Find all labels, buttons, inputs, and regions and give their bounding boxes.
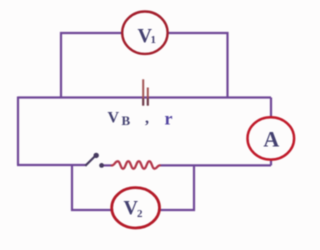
wire: V2 loop (bottom) bbox=[72, 165, 194, 210]
voltmeter V1 circle bbox=[122, 12, 167, 54]
battery VB short plate bbox=[147, 88, 149, 106]
battery plates lower dark segments bbox=[143, 98, 148, 105]
switch contact dot bbox=[99, 163, 104, 168]
svg-text:1: 1 bbox=[151, 34, 157, 46]
wire: V1 loop (top) bbox=[61, 33, 228, 98]
wire: switch to resistor segment bbox=[102, 164, 112, 166]
wire: resistor to right segment bbox=[160, 164, 271, 166]
ammeter A circle bbox=[247, 117, 294, 159]
svg-text:B: B bbox=[122, 113, 131, 128]
wire: right vertical through ammeter bbox=[270, 98, 272, 166]
voltmeter V2 circle bbox=[112, 188, 160, 228]
svg-text:r: r bbox=[165, 108, 173, 128]
svg-text:A: A bbox=[263, 126, 279, 151]
battery VB long plate bbox=[142, 79, 144, 105]
wire: middle horizontal with battery bbox=[18, 96, 271, 98]
resistor R zigzag bbox=[112, 161, 160, 168]
switch lever bbox=[85, 156, 95, 165]
switch pivot dot bbox=[94, 153, 99, 158]
svg-text:2: 2 bbox=[137, 208, 143, 220]
wire: bottom left segment bbox=[17, 164, 86, 166]
wire: left side vertical bbox=[17, 97, 19, 166]
svg-text:V: V bbox=[108, 110, 120, 127]
svg-text:,: , bbox=[145, 110, 149, 127]
